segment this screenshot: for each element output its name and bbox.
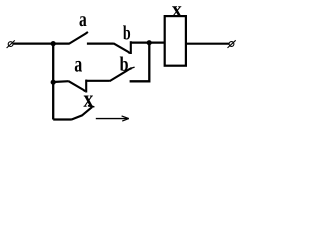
contact x (make) row3 lever bbox=[72, 107, 93, 120]
wire row1 right of b bbox=[131, 41, 165, 43]
node C junction bbox=[51, 80, 56, 85]
node A junction bbox=[51, 41, 56, 46]
contact a row2 stub bbox=[85, 80, 87, 93]
coil box X bbox=[165, 16, 186, 66]
node B junction bbox=[147, 40, 152, 45]
wire row1 right of box bbox=[186, 43, 230, 45]
contact x lever serif bbox=[88, 106, 95, 107]
left terminal bbox=[7, 40, 15, 48]
contact a (break) row2 lever bbox=[69, 81, 86, 91]
contact b row1 stub bbox=[130, 41, 132, 54]
wire row1 mid bbox=[87, 42, 114, 44]
contact b (make) row2 bbox=[110, 68, 132, 81]
contact a (make) row1 bbox=[69, 32, 88, 44]
label b row1 bbox=[123, 25, 130, 39]
label x box bbox=[172, 6, 182, 16]
wire left bus bbox=[52, 44, 54, 120]
wire row2 mid bbox=[86, 80, 110, 82]
label a row2 bbox=[75, 61, 82, 72]
contact b (break) row1 lever bbox=[113, 43, 129, 53]
label b row2 bbox=[120, 56, 128, 70]
label a row1 bbox=[80, 16, 87, 26]
wire row1 left bbox=[13, 42, 69, 44]
right terminal bbox=[228, 40, 236, 48]
label x row3 bbox=[84, 95, 94, 106]
wire row2 left bbox=[53, 80, 69, 83]
wire row3 bottom bbox=[53, 118, 72, 120]
wire node B drop bbox=[130, 43, 150, 82]
output arrow bbox=[96, 116, 129, 121]
